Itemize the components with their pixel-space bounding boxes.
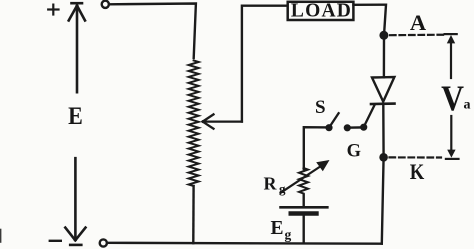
minus sign <box>50 240 61 242</box>
switch contact dot <box>344 125 350 131</box>
wire: top terminal to potentiometer top <box>109 4 196 59</box>
wire: potentiometer bottom to rail <box>192 186 195 243</box>
Va arrow top <box>447 35 455 78</box>
svg-text:g: g <box>279 181 286 196</box>
wire: wiper up to LOAD <box>242 6 288 122</box>
svg-text:S: S <box>315 97 326 118</box>
E source top tick <box>72 2 83 5</box>
potentiometer R zigzag <box>189 61 199 187</box>
wire: Rg to battery <box>303 195 305 207</box>
Rg variable arrow <box>281 160 330 193</box>
Va bottom tick <box>446 158 459 160</box>
svg-text:LOAD: LOAD <box>291 1 352 22</box>
node A junction dot <box>380 31 388 39</box>
svg-text:R: R <box>264 173 278 193</box>
wire: switch to Rg top <box>304 127 329 169</box>
label Eg <box>270 218 291 242</box>
SCR thyristor triangle <box>372 77 394 102</box>
terminal circle bottom <box>100 239 107 246</box>
potentiometer wiper arrow <box>203 114 242 128</box>
wire: cathode down through G node to rail <box>382 104 384 244</box>
dashed leader at A <box>390 34 446 37</box>
svg-text:a: a <box>464 98 471 113</box>
battery Eg long plate <box>281 206 328 209</box>
dashed leader at K <box>390 156 442 158</box>
E source up arrow <box>69 6 85 93</box>
wire: battery to bottom rail <box>303 214 305 244</box>
E source down arrow <box>65 158 85 240</box>
wire: LOAD to anode corner <box>354 5 387 36</box>
svg-text:E: E <box>270 218 283 239</box>
svg-text:K: K <box>410 161 425 185</box>
E source bottom tick <box>70 244 81 247</box>
Va top tick <box>445 33 457 35</box>
label Va <box>441 79 470 118</box>
gate node dot (right) <box>361 124 367 130</box>
svg-text:g: g <box>285 227 292 242</box>
scan edge artifact left <box>0 230 2 243</box>
terminal circle top <box>102 1 109 8</box>
battery Eg short plate <box>291 211 317 216</box>
plus sign <box>48 5 58 15</box>
svg-text:G: G <box>347 142 361 162</box>
SCR cathode bar <box>371 102 395 105</box>
svg-text:A: A <box>410 10 427 35</box>
Va arrow bottom <box>447 116 455 158</box>
bottom rail wire <box>107 242 382 245</box>
SCR gate lead diagonal <box>364 105 375 127</box>
label Rg <box>264 173 287 196</box>
node G junction dot <box>380 154 388 162</box>
load box <box>288 2 354 20</box>
svg-text:V: V <box>441 79 464 118</box>
resistor Rg zigzag <box>299 168 308 194</box>
switch pole dot <box>326 125 332 131</box>
switch S blade <box>329 113 338 127</box>
wire between gate dots <box>347 126 363 129</box>
svg-text:E: E <box>68 103 83 131</box>
wire: anode down to SCR <box>383 35 386 77</box>
